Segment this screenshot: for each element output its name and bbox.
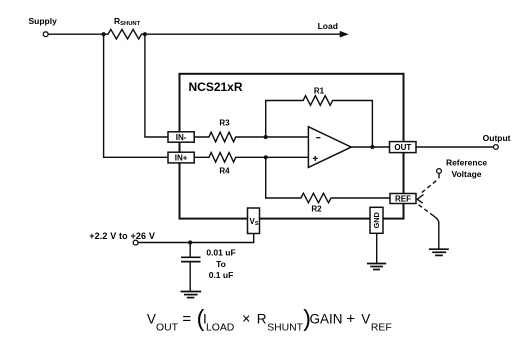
- resistor R3: [194, 132, 308, 142]
- svg-text:+: +: [346, 311, 355, 328]
- svg-text:R: R: [257, 311, 267, 326]
- svg-text:OUT: OUT: [156, 323, 179, 334]
- ground below capacitor: [181, 292, 202, 298]
- ground below GND pin: [367, 264, 386, 270]
- svg-text:V: V: [147, 311, 156, 326]
- svg-text:R4: R4: [219, 166, 230, 175]
- terminal supply: [43, 32, 48, 37]
- wire supply rail: [48, 33, 103, 35]
- formula VOUT: [147, 305, 392, 334]
- ground reference voltage: [429, 249, 449, 255]
- node noninverting input: [264, 155, 268, 159]
- capacitor C1 bottom lead: [189, 262, 191, 291]
- svg-text:R3: R3: [219, 119, 230, 128]
- wire reference ground: [434, 216, 439, 249]
- op-amp minus: [316, 137, 320, 139]
- svg-text:REF: REF: [371, 323, 392, 334]
- resistor R1 feedback: [266, 96, 373, 147]
- pin GND: [370, 207, 383, 233]
- pin REF: [390, 194, 416, 204]
- svg-text:IN-: IN-: [176, 133, 187, 142]
- wire output: [416, 146, 493, 148]
- terminal output: [494, 145, 499, 150]
- svg-text:0.1 uF: 0.1 uF: [209, 270, 234, 280]
- wire GND pin: [376, 233, 378, 263]
- svg-text:S: S: [255, 221, 259, 227]
- node output feedback: [370, 145, 374, 149]
- wire from shunt left to IN+: [104, 34, 168, 157]
- svg-text:OUT: OUT: [394, 143, 411, 152]
- capacitor C1 top lead: [189, 243, 191, 257]
- svg-text:NCS21xR: NCS21xR: [189, 80, 243, 94]
- node shunt right: [143, 32, 147, 36]
- svg-text:=: =: [182, 310, 191, 327]
- svg-text:Output: Output: [483, 133, 511, 143]
- op-amp U1: [308, 127, 351, 168]
- arrowhead load: [340, 31, 349, 38]
- svg-text:GND: GND: [372, 212, 381, 228]
- svg-text:+2.2 V to +26 V: +2.2 V to +26 V: [89, 231, 155, 241]
- stem below reference terminal: [438, 173, 440, 178]
- svg-text:Load: Load: [318, 21, 338, 31]
- pin IN-: [168, 132, 194, 142]
- svg-text:GAIN: GAIN: [310, 311, 343, 326]
- svg-text:Reference: Reference: [446, 157, 487, 167]
- svg-text:0.01 uF: 0.01 uF: [206, 248, 235, 258]
- node inverting input: [264, 135, 268, 139]
- node shunt left: [102, 32, 106, 36]
- svg-text:R1: R1: [314, 87, 325, 96]
- svg-text:To: To: [216, 259, 226, 269]
- svg-text:×: ×: [242, 312, 250, 328]
- node supply bypass: [188, 240, 192, 244]
- svg-text:V: V: [361, 311, 370, 326]
- resistor RSHUNT: [104, 29, 145, 39]
- svg-text:Supply: Supply: [29, 16, 58, 26]
- terminal reference voltage: [437, 169, 442, 174]
- wire Vs supply: [138, 234, 254, 243]
- NCS21xR box: [180, 74, 404, 219]
- wire load rail: [145, 33, 341, 35]
- pin OUT: [390, 142, 417, 153]
- terminal +2.2V: [133, 240, 138, 245]
- svg-text:R2: R2: [311, 204, 322, 213]
- svg-text:IN+: IN+: [175, 154, 188, 163]
- op-amp plus: [313, 156, 318, 161]
- capacitor C1 plates: [181, 257, 201, 261]
- resistor R4: [194, 153, 308, 163]
- wire op-amp output: [351, 146, 389, 148]
- svg-text:REF: REF: [395, 194, 411, 203]
- svg-text:Voltage: Voltage: [451, 169, 481, 179]
- pin Vs: [248, 208, 260, 234]
- svg-text:LOAD: LOAD: [206, 323, 234, 334]
- resistor R2: [266, 157, 390, 203]
- dashed wire REF to ground: [419, 205, 434, 216]
- svg-text:SHUNT: SHUNT: [267, 323, 303, 334]
- pin IN+: [168, 152, 194, 163]
- dashed wire REF to reference terminal: [422, 181, 437, 193]
- wire from shunt right to IN-: [145, 34, 168, 137]
- arrowhead into REF: [417, 195, 423, 204]
